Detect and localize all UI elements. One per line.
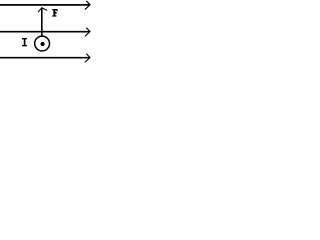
arrowhead middle line (85, 28, 90, 36)
label F (52, 9, 57, 17)
field line B bottom (0, 57, 90, 59)
field line B middle (0, 31, 90, 33)
dot current out of page (41, 42, 45, 46)
arrowhead bottom line (85, 54, 90, 62)
force arrowhead (38, 8, 47, 12)
label I (22, 38, 27, 46)
arrowhead top line (85, 1, 90, 9)
wire conductor circle (current out of page) (35, 36, 50, 51)
force arrow F stem (41, 8, 43, 36)
field line B top (0, 4, 90, 6)
